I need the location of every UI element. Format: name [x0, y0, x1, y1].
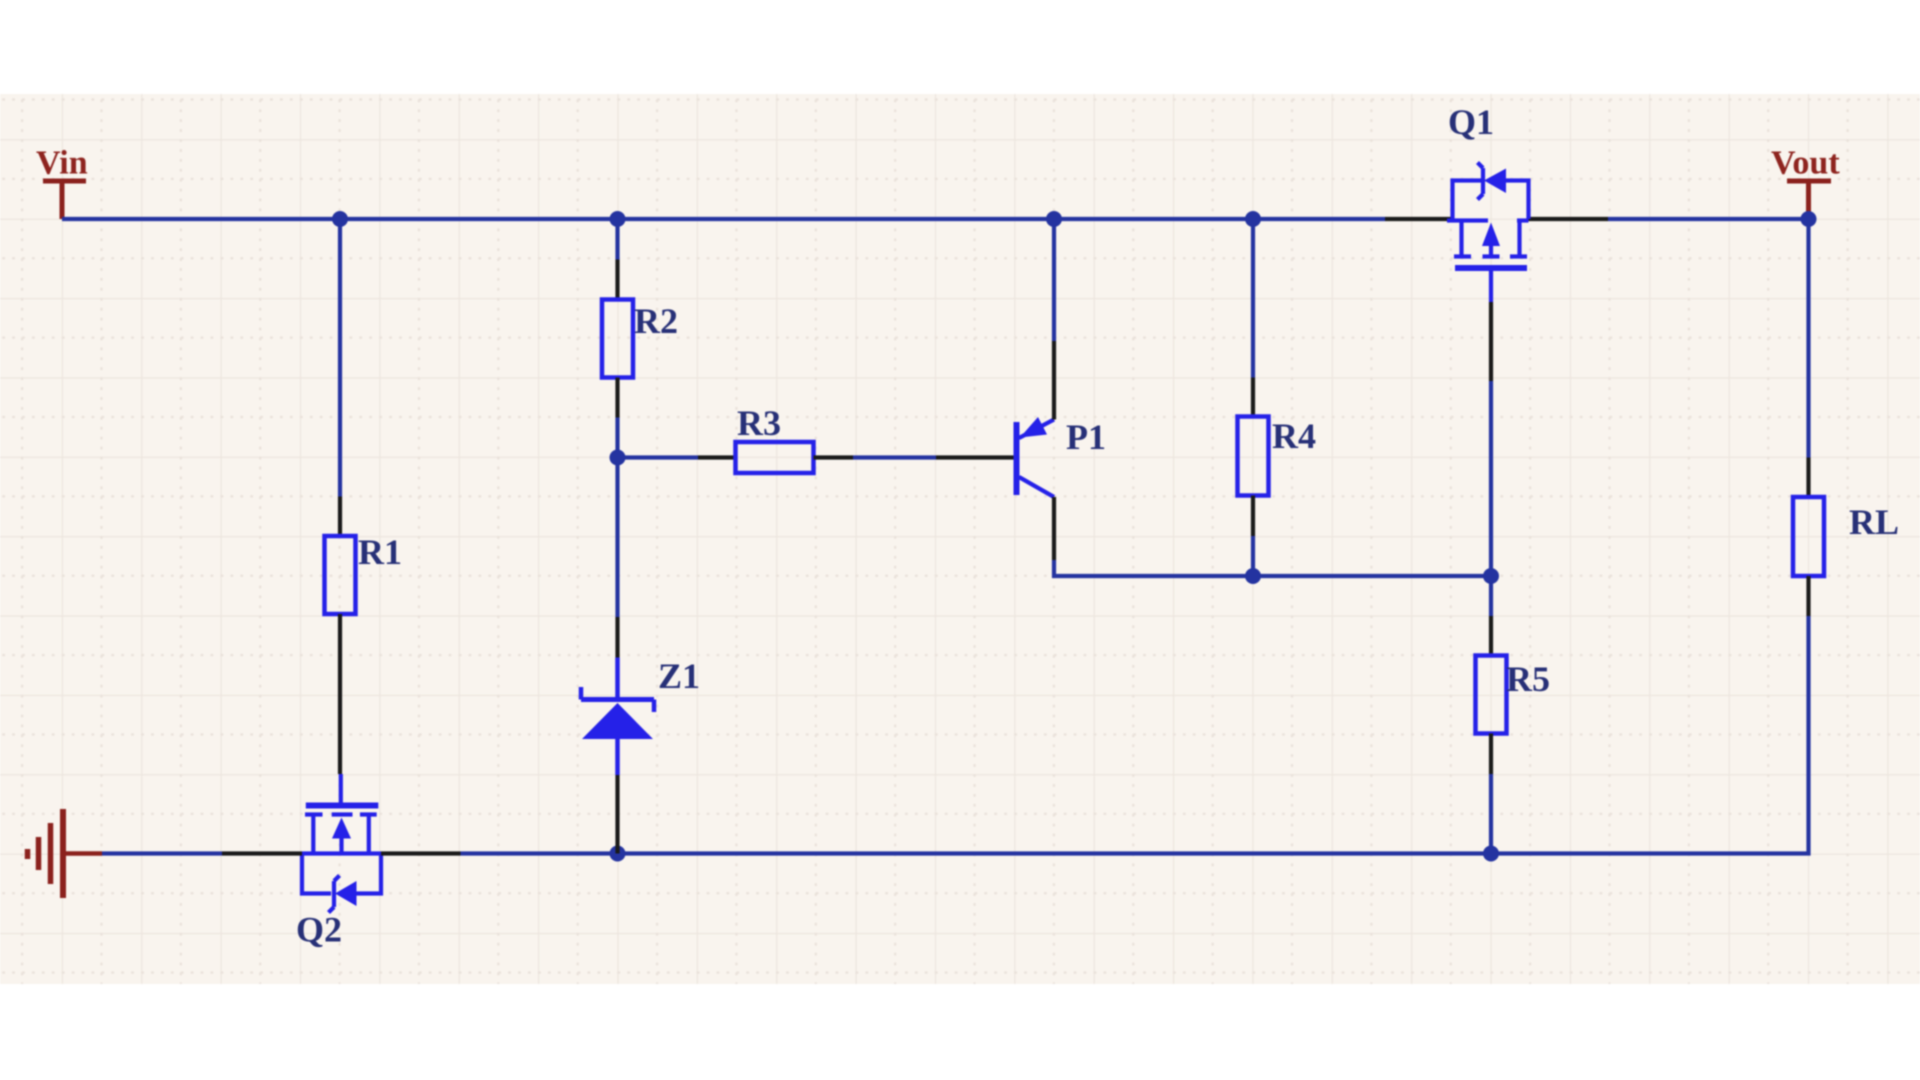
pin R2 top — [615, 260, 619, 300]
junction top rail / Vout / RL — [1801, 211, 1817, 227]
svg-text:Q2: Q2 — [296, 910, 342, 950]
resistor R2 — [602, 300, 633, 378]
pin R4 bottom — [1251, 496, 1255, 537]
resistor R5 — [1476, 656, 1507, 734]
wire node A to R3 — [618, 455, 699, 459]
junction feedback / R4 — [1245, 568, 1261, 584]
wire R5 to ground — [1489, 774, 1493, 854]
pin R1 bottom / Q2 gate pin — [338, 614, 342, 774]
resistor R3 — [736, 442, 814, 473]
wire R3 to P1 base — [853, 455, 936, 459]
resistor R4 — [1238, 417, 1269, 496]
svg-text:R5: R5 — [1506, 659, 1550, 699]
pin R3 right — [814, 455, 854, 459]
pin P1 collector (black) — [1052, 497, 1056, 560]
pin Z1 anode (black) — [615, 775, 619, 854]
svg-text:Vout: Vout — [1771, 145, 1840, 182]
wire R2 to node A — [615, 418, 619, 458]
wire R2 branch from rail — [615, 219, 619, 260]
resistor RL — [1793, 497, 1824, 576]
pin Q2 left (black) — [222, 851, 302, 855]
pin R5 bottom — [1489, 734, 1493, 775]
junction top rail / P1 emitter — [1046, 211, 1062, 227]
wire ground rail right — [461, 616, 1809, 854]
svg-text:RL: RL — [1849, 502, 1899, 542]
transistor Q1 (P-MOSFET with body zener) — [1447, 163, 1529, 303]
junction top rail / R2 — [610, 211, 626, 227]
junction ground / R5 — [1483, 846, 1499, 862]
ground power symbol — [28, 809, 103, 898]
pin RL top — [1806, 458, 1810, 498]
power port Vout — [1771, 145, 1840, 220]
pin Q1 source (right, black) — [1529, 217, 1609, 221]
pin R1 top — [338, 497, 342, 537]
pin R4 top — [1251, 378, 1255, 417]
wire P1 emitter to rail — [1052, 219, 1056, 341]
pin R2 bottom — [615, 378, 619, 418]
wire Vout rail down to RL — [1806, 219, 1810, 458]
pin Q1 gate (black) — [1489, 302, 1493, 381]
pin R5 top — [1489, 616, 1493, 656]
pin RL bottom — [1806, 576, 1810, 616]
transistor P1 (PNP) — [1017, 417, 1055, 497]
wire P1 collector to feedback node — [1054, 560, 1491, 576]
wire node A down to Z1 — [615, 458, 619, 618]
wire ground rail left — [102, 851, 222, 855]
wire top rail right (Q1 to Vout) — [1608, 217, 1809, 221]
junction feedback / Q1 gate / R5 — [1483, 568, 1499, 584]
svg-text:P1: P1 — [1066, 417, 1106, 457]
wire R4 branch from rail — [1251, 219, 1255, 378]
power port Vin — [36, 145, 88, 220]
junction top rail / R4 — [1245, 211, 1261, 227]
svg-text:R3: R3 — [737, 403, 781, 443]
zener diode Z1 — [581, 658, 654, 776]
junction ground / Z1 — [610, 846, 626, 862]
svg-text:Vin: Vin — [36, 145, 88, 182]
svg-text:R2: R2 — [634, 301, 678, 341]
pin Q1 drain (left, black) — [1385, 217, 1453, 221]
pin P1 base (black) — [936, 455, 1014, 459]
wire R1 branch from rail — [338, 219, 342, 497]
transistor Q2 (N-MOSFET with body zener) — [302, 774, 381, 913]
junction node A (R2/R3/Z1) — [610, 450, 626, 466]
junction top rail / R1 — [332, 211, 348, 227]
pin R3 left — [698, 455, 736, 459]
svg-text:R4: R4 — [1272, 416, 1316, 456]
svg-text:R1: R1 — [358, 532, 402, 572]
wire Q1 gate to feedback node — [1489, 381, 1493, 576]
pin Q2 right (black) — [381, 851, 461, 855]
pin Z1 cathode (black) — [615, 617, 619, 658]
wire feedback node to R5 — [1489, 576, 1493, 616]
resistor R1 — [325, 536, 356, 614]
svg-text:Z1: Z1 — [658, 656, 700, 696]
wire top rail left (Vin to Q1) — [62, 217, 1385, 221]
pin P1 emitter (black) — [1052, 341, 1056, 420]
svg-text:Q1: Q1 — [1448, 102, 1494, 142]
wire R4 to feedback node — [1251, 536, 1255, 576]
